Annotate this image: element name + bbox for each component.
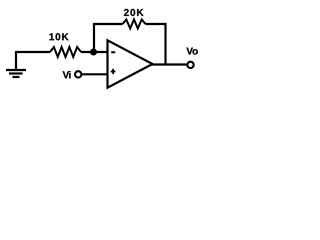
- terminal Vi: [75, 71, 81, 77]
- label 10K: [49, 33, 68, 40]
- op-amp plus pin label: [111, 69, 116, 74]
- wire ground to R1: [15, 51, 50, 53]
- label 20K: [124, 9, 144, 16]
- wire output: [150, 63, 188, 65]
- resistor R2 20K: [123, 20, 146, 29]
- ground: [6, 52, 26, 77]
- terminal Vo: [187, 62, 193, 68]
- wire R1 to op-amp inverting input: [81, 51, 108, 53]
- op-amp U1: [108, 40, 153, 87]
- node junction dot: [90, 49, 97, 56]
- label Vi: [63, 71, 71, 78]
- wire feedback right vertical: [164, 23, 166, 65]
- wire feedback top left: [93, 23, 123, 25]
- op-amp minus pin label: [111, 51, 115, 53]
- wire feedback left vertical: [93, 24, 95, 53]
- resistor R1 10K: [50, 47, 81, 57]
- wire feedback top right: [146, 23, 166, 25]
- wire op-amp non-inverting input: [82, 73, 108, 75]
- label Vo: [186, 48, 197, 55]
